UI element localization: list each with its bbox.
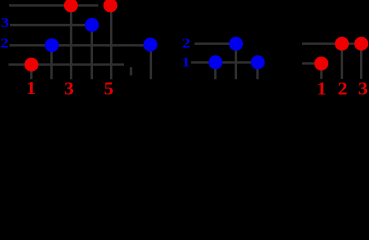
svg-text:2: 2 — [0, 36, 8, 52]
node: blue dot left line2 right — [143, 38, 157, 52]
node: blue dot middle line2 — [229, 37, 243, 51]
wire: left column 2 — [50, 45, 52, 79]
svg-text:1: 1 — [182, 55, 190, 71]
wire: left diagram top line — [9, 4, 98, 6]
wire: middle stem b — [235, 44, 237, 79]
node: red dot right bottom — [314, 57, 328, 71]
svg-text:3: 3 — [1, 15, 10, 31]
node: red dot left top B — [103, 0, 117, 12]
node: red dot right top B — [354, 37, 368, 51]
wire: left column 3 — [70, 5, 72, 79]
wire: right diagram top line — [302, 43, 361, 45]
svg-text:3: 3 — [358, 79, 368, 97]
wire: left right stem under blue dot — [150, 45, 152, 80]
node: blue dot middle line1 a — [209, 55, 223, 69]
svg-text:2: 2 — [182, 36, 190, 52]
wire: right diagram bottom line — [302, 62, 321, 64]
node: blue dot left line2 — [45, 38, 59, 52]
wire: left diagram line 3 — [10, 24, 92, 26]
wire: middle stem a — [214, 62, 216, 79]
wire: left short dash tick — [130, 67, 132, 75]
wire: right stem 1 — [320, 63, 322, 79]
node: blue dot left line3 — [85, 18, 99, 32]
wire: left column 4 — [91, 25, 93, 79]
wire: left diagram bottom line 1 — [9, 63, 125, 65]
node: red dot right top A — [335, 37, 349, 51]
wire: right stem 2 — [341, 44, 343, 79]
svg-text:3: 3 — [64, 79, 74, 97]
wire: middle line 1 — [191, 61, 258, 63]
node: blue dot middle line1 b — [251, 55, 265, 69]
svg-text:1: 1 — [26, 79, 36, 97]
wire: left diagram line 2 — [10, 44, 151, 46]
node: red dot left bottom — [24, 58, 38, 72]
wire: middle stem c — [256, 62, 258, 79]
wire: middle line 2 — [195, 43, 237, 45]
svg-text:1: 1 — [317, 79, 327, 97]
svg-text:2: 2 — [338, 79, 348, 97]
wire: right stem 3 — [360, 44, 362, 79]
wire: left column 5 — [110, 5, 112, 79]
wire: left column 1 — [30, 65, 32, 80]
node: red dot left top A — [64, 0, 78, 12]
svg-text:5: 5 — [104, 79, 114, 97]
